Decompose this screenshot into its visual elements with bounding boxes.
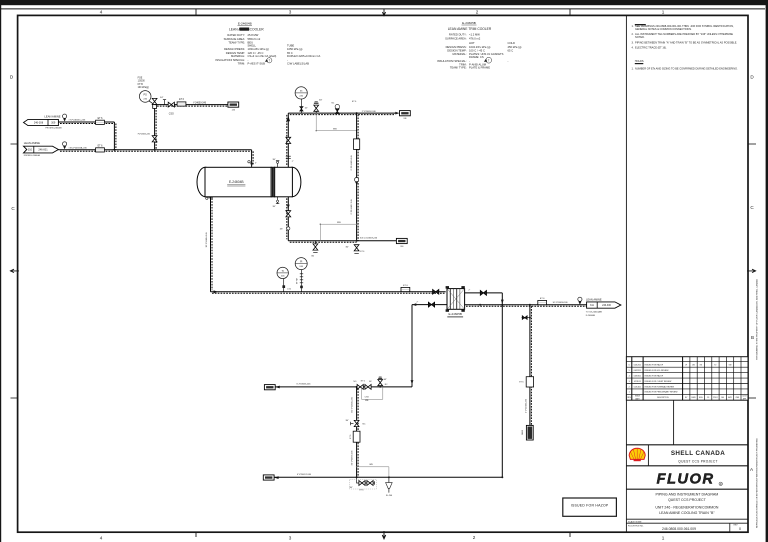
svg-text:DESIGN TEMP:: DESIGN TEMP: (226, 51, 245, 55)
svg-text:65 C: 65 C (508, 48, 514, 52)
valve on cold line (428, 302, 434, 307)
vessel inlet drop line (248, 150, 257, 167)
equipment block E-24604B title (229, 22, 264, 32)
note 2 (632, 32, 734, 39)
svg-text:ET 6: ET 6 (350, 435, 352, 439)
svg-text:R: R (720, 483, 722, 486)
SHELL CANADA wordmark (671, 450, 725, 463)
line 2 (inlet 2 to vessel drop) (58, 150, 251, 152)
svg-text:NT B: NT B (138, 84, 144, 86)
svg-text:LEAN AMINE: LEAN AMINE (24, 141, 40, 145)
zone number 3 top (289, 10, 292, 15)
zone number 4 bottom (100, 536, 103, 541)
valve on vent stub (314, 105, 319, 111)
svg-text:3/4": 3/4" (280, 229, 284, 231)
svg-text:KT: KT (714, 364, 716, 366)
svg-text:ISSUED FOR CLIENT REVIEW: ISSUED FOR CLIENT REVIEW (645, 381, 672, 383)
svg-text:<1.2 MW: <1.2 MW (469, 32, 480, 36)
svg-text:WB: WB (333, 128, 337, 130)
svg-text:THIS DRAWING IS THE PROPERTY O: THIS DRAWING IS THE PROPERTY OF FLUOR CA… (756, 279, 759, 360)
letdown line tags (351, 155, 353, 215)
svg-text:E-24605B: E-24605B (449, 312, 462, 316)
svg-text:1: 1 (662, 10, 665, 15)
notes heading underline (635, 24, 646, 25)
spec break outlet (578, 297, 582, 304)
CSO WB bypass lower header (362, 387, 383, 402)
zone number 2 top (476, 10, 479, 15)
svg-text:1: 1 (662, 536, 665, 541)
svg-text:1/2": 1/2" (305, 107, 309, 109)
lower header line (275, 384, 412, 388)
spec break on letdown (355, 178, 359, 185)
title block (563, 400, 748, 532)
TP box lower header left (264, 385, 279, 390)
TP box bottom header left (263, 475, 278, 480)
svg-text:2.: 2. (632, 32, 634, 36)
bottom header line (274, 474, 502, 478)
open drain funnel (386, 477, 393, 497)
centre arrow right (747, 269, 756, 272)
valve on bleed drop (152, 136, 157, 142)
LI bubble (295, 258, 307, 292)
svg-text:2": 2" (292, 161, 294, 163)
svg-text:3: 3 (289, 536, 292, 541)
zone tick left between B and A (11, 397, 18, 399)
svg-text:B: B (751, 335, 754, 340)
inlet flag LEAN AMINE 2 (24, 141, 59, 157)
svg-text:3/4": 3/4" (319, 100, 323, 102)
svg-text:LEAN AMINE COOLING TRAIN "B": LEAN AMINE COOLING TRAIN "B" (659, 511, 715, 515)
notes column divider line (625, 15, 627, 532)
svg-text:FLUOR FILE NO.: FLUOR FILE NO. (628, 525, 644, 527)
outer top border line (0, 8, 765, 10)
svg-text:25.8 MW: 25.8 MW (248, 33, 259, 37)
note 3 (632, 41, 738, 45)
svg-text:2: 2 (476, 10, 479, 15)
svg-text:SHELL: SHELL (248, 44, 257, 48)
svg-text:4: 4 (629, 376, 630, 378)
holds heading (635, 59, 644, 64)
svg-text:10"-P24658-246: 10"-P24658-246 (553, 302, 569, 304)
vapor riser from channel (286, 113, 294, 167)
svg-text:E-24604B: E-24604B (229, 180, 244, 184)
svg-text:PIPING AND INSTRUMENT DIAGRA: PIPING AND INSTRUMENT DIAGRAM (655, 493, 718, 497)
svg-text:1.: 1. (632, 67, 634, 71)
svg-text:2: 2 (629, 386, 630, 388)
svg-text:F-P24655-246: F-P24655-246 (138, 134, 150, 136)
WB bypass upper (316, 113, 358, 131)
svg-text:PROJ: PROJ (713, 397, 718, 399)
svg-text:5: 5 (629, 370, 630, 372)
svg-text:DESIGN PRESS:: DESIGN PRESS: (446, 45, 467, 49)
svg-text:03/18/11: 03/18/11 (634, 376, 641, 378)
isolation valve pair lower header (354, 380, 373, 389)
outlet flag LEAN AMINE (586, 297, 621, 317)
ET heater symbol line 2 (96, 145, 105, 152)
WB bypass lower (320, 222, 358, 241)
inline strainer on letdown (354, 139, 360, 150)
svg-text:ET 6: ET 6 (179, 99, 185, 101)
svg-text:SURFACE AREA:: SURFACE AREA: (445, 37, 467, 41)
svg-text:HOLDS: HOLDS (635, 59, 644, 63)
bleed drop line to header (138, 108, 156, 150)
svg-text:INSULATION/ SPECIAL:: INSULATION/ SPECIAL: (215, 58, 245, 62)
svg-text:ET 6: ET 6 (403, 285, 408, 287)
svg-text:246: 246 (232, 110, 235, 112)
zone letter C left (11, 206, 15, 211)
zone number 2 bottom (473, 535, 476, 540)
FLUOR wordmark (657, 472, 723, 488)
riser return line right (501, 305, 503, 479)
exchanger E-24605B label (447, 312, 463, 317)
svg-text:CLNT: CLNT (742, 396, 746, 398)
svg-text:SHELL CANADA: SHELL CANADA (671, 450, 725, 457)
spec break symbol line 2 (63, 142, 88, 150)
zone number 3 bottom (289, 536, 292, 541)
svg-text:MATERIAL:: MATERIAL: (231, 54, 245, 58)
svg-text:LEAN AMINE: LEAN AMINE (44, 115, 60, 119)
svg-text:4: 4 (100, 10, 103, 15)
zone tick top between 2 and 1 (569, 9, 571, 15)
TP box PSV line (228, 102, 239, 112)
channel bottom drain line (280, 197, 290, 241)
vapor header to TP (288, 112, 399, 115)
vapor header tag (352, 101, 377, 113)
piping diagram (24, 78, 621, 497)
svg-text:RATED DUTY:: RATED DUTY: (227, 33, 245, 37)
revision initials row (685, 364, 732, 366)
right edge black strip (766, 0, 768, 542)
svg-text:CSO: CSO (365, 396, 370, 398)
svg-text:ISSUED FOR 60% REVIEW: ISSUED FOR 60% REVIEW (645, 370, 669, 372)
svg-text:REPRODUCTION IN WHOLE OR IN PA: REPRODUCTION IN WHOLE OR IN PART WITHOUT… (756, 438, 759, 528)
svg-text:311: 311 (590, 304, 594, 307)
valve on drain drop (345, 420, 365, 427)
svg-text:UNIT 246 - REGENERATION/COMMON: UNIT 246 - REGENERATION/COMMON (655, 506, 719, 510)
svg-text:TI: TI (282, 270, 284, 273)
svg-text:FROM E-24604A: FROM E-24604A (24, 154, 41, 157)
svg-text:246: 246 (403, 118, 406, 120)
svg-text:JP: JP (685, 364, 687, 366)
exchanger bottom-left cold line (411, 301, 447, 387)
revision table (626, 357, 748, 401)
svg-text:4.: 4. (632, 46, 634, 50)
svg-text:FGE: FGE (138, 78, 143, 80)
svg-text:HOT: HOT (469, 41, 475, 45)
valve on vapor riser (286, 137, 291, 143)
vertical margin fine print lower (756, 438, 759, 528)
svg-text:2"-P24652-246: 2"-P24652-246 (362, 111, 377, 113)
inline component on drain drop (350, 431, 360, 442)
svg-text:NUMBER OF ETs AND SIZING TO BE: NUMBER OF ETs AND SIZING TO BE CONFIRMED… (635, 67, 738, 71)
zone tick right between B and A (748, 397, 756, 399)
letdown line vertical (357, 113, 359, 241)
valve before exchanger (433, 289, 439, 294)
svg-text:DUPLEX 2205+0.00mm CA: DUPLEX 2205+0.00mm CA (287, 54, 320, 58)
svg-text:3: 3 (629, 381, 630, 383)
PG service note text (138, 78, 149, 89)
note 1 (632, 24, 735, 31)
svg-text:3/4": 3/4" (160, 97, 164, 99)
svg-text:LG2: LG2 (287, 288, 291, 290)
line 1 (inlet 1 to drop) (58, 122, 116, 151)
svg-text:4: 4 (100, 536, 103, 541)
svg-text:FRAME: CS: FRAME: CS (469, 55, 484, 59)
svg-text:E-24605B: E-24605B (462, 21, 476, 25)
svg-text:04/22/11: 04/22/11 (634, 370, 641, 372)
ET symbol on PSV line (177, 99, 186, 106)
svg-text:6"-P24656-246: 6"-P24656-246 (297, 384, 312, 386)
svg-text:ISSUED FOR HAZOP: ISSUED FOR HAZOP (645, 364, 664, 367)
svg-text:246: 246 (400, 246, 403, 248)
zone tick bottom between 2 and 1 (569, 532, 571, 537)
svg-text:GENERAL NOTES & COMMON CONNECT: GENERAL NOTES & COMMON CONNECTIONS. (635, 27, 692, 31)
svg-text:120 C / -45 C: 120 C / -45 C (248, 51, 264, 55)
svg-text:#T-P24655C-246: #T-P24655C-246 (69, 120, 86, 122)
svg-text:310: 310 (28, 149, 33, 152)
top black bar (0, 0, 768, 5)
svg-text:ALL INSTRUMENT TAG NUMBERS ARE: ALL INSTRUMENT TAG NUMBERS ARE PREFIXED … (635, 32, 733, 36)
svg-text:ET 6: ET 6 (360, 489, 364, 491)
svg-text:6: 6 (629, 365, 630, 367)
svg-text:246-306: 246-306 (602, 304, 611, 307)
svg-text:SURFACE AREA:: SURFACE AREA: (224, 37, 246, 41)
svg-text:3.: 3. (632, 41, 634, 45)
svg-text:ET 6: ET 6 (361, 380, 365, 382)
svg-text:P-AES IT-SUB: P-AES IT-SUB (248, 62, 266, 66)
svg-text:5654.6 m2: 5654.6 m2 (248, 37, 261, 41)
blowdown branch drop (522, 305, 532, 440)
svg-text:TO XX-24610A/B: TO XX-24610A/B (586, 311, 603, 314)
valve on exchanger outlet loop (480, 291, 486, 296)
equipment block E-24605B title (448, 21, 492, 31)
svg-text:1.: 1. (632, 24, 634, 28)
WB bypass to funnel (356, 464, 389, 477)
vessel shell vent stub (273, 159, 280, 168)
svg-text:TUBE: TUBE (287, 44, 294, 48)
svg-text:3/4"-P24656-246: 3/4"-P24656-246 (351, 450, 353, 466)
LG bubble (277, 267, 291, 292)
svg-text:05/12/11: 05/12/11 (634, 365, 641, 367)
svg-text:PG: PG (143, 94, 147, 97)
CSO label (169, 113, 174, 115)
svg-text:3/4": 3/4" (384, 379, 388, 381)
notes column (632, 24, 739, 71)
PSV discharge line (155, 97, 228, 106)
valve on blowdown stub (522, 316, 527, 320)
svg-text:PIPING BETWEEN TRAIN "A" AND T: PIPING BETWEEN TRAIN "A" AND TRAIN "B" T… (635, 41, 737, 45)
centre arrow top (382, 9, 385, 16)
svg-text:1/2000: 1/2000 (138, 81, 146, 83)
svg-text:ET 6: ET 6 (360, 251, 364, 253)
svg-text:CSO: CSO (169, 113, 174, 115)
ET heater symbol line 1 (96, 118, 105, 125)
equipment data blocks (215, 21, 521, 70)
svg-text:INSULATION/ SPECIAL:: INSULATION/ SPECIAL: (437, 59, 467, 63)
vent stub on vapor header (314, 100, 323, 114)
svg-text:TRIM:: TRIM: (238, 62, 246, 66)
svg-text:WB: WB (337, 222, 341, 224)
svg-text:DESIGN PRESS:: DESIGN PRESS: (224, 47, 245, 51)
svg-text:AMINE: AMINE (240, 27, 248, 31)
svg-text:2": 2" (255, 163, 257, 165)
blowdown line tag (526, 398, 528, 413)
svg-text:ELECTRIC TRACE (ET 16).: ELECTRIC TRACE (ET 16). (635, 46, 667, 50)
note 4 (632, 46, 668, 50)
svg-text:COLD: COLD (508, 41, 516, 45)
svg-text:Y-24650-246: Y-24650-246 (193, 102, 207, 104)
svg-text:CS+3 mm thk CA (shell): CS+3 mm thk CA (shell) (248, 54, 277, 58)
svg-text:3/4": 3/4" (273, 159, 277, 161)
svg-text:TEAM/ TYPE:: TEAM/ TYPE: (228, 40, 245, 44)
zone letter D right (750, 75, 754, 80)
globe fitting on vapor header (332, 102, 340, 113)
svg-text:C/W LABELS/LAB: C/W LABELS/LAB (287, 62, 309, 66)
svg-text:2: 2 (473, 535, 476, 540)
steam trap on blowdown (522, 425, 533, 440)
vessel E-24604B label (227, 180, 245, 186)
svg-text:246.0808.000.061.009: 246.0808.000.061.009 (662, 527, 696, 531)
spec break symbol line 1 (63, 114, 86, 121)
svg-text:3/4"-LO24659-246: 3/4"-LO24659-246 (360, 237, 378, 239)
drawing number (662, 525, 741, 532)
svg-text:-: - (287, 59, 288, 62)
zone tick right between D and C (748, 143, 756, 145)
root valve TI (300, 107, 309, 111)
svg-text:LEAN AMINE: LEAN AMINE (586, 297, 602, 301)
svg-text:3/4": 3/4" (273, 206, 277, 208)
revision rows text (629, 364, 678, 394)
equipment block E-24605B data rows (437, 32, 522, 69)
zone letter D left (10, 75, 14, 80)
svg-text:65 C: 65 C (287, 51, 293, 55)
zone tick top between 4 and 3 (195, 9, 197, 15)
bottom header to exchanger (211, 290, 446, 293)
svg-text:RS: RS (700, 364, 702, 366)
ET symbol bottom header (401, 285, 410, 292)
vessel E-24604B shell (197, 167, 301, 197)
drip valve on drain header (312, 241, 318, 258)
svg-text:SP 747: SP 747 (297, 278, 299, 284)
svg-text:3/4": 3/4" (345, 420, 349, 422)
svg-text:ET 6: ET 6 (98, 145, 104, 147)
outlet header tag (553, 302, 569, 304)
svg-text:246-001: 246-001 (38, 149, 48, 152)
svg-text:100 C / -45 C: 100 C / -45 C (469, 48, 485, 52)
svg-text:24650: 24650 (522, 430, 524, 435)
zone number 1 top (662, 10, 665, 15)
svg-text:E-24604B: E-24604B (238, 22, 252, 26)
shell pecten logo (629, 448, 645, 461)
letdown drain valve below junction (345, 245, 364, 254)
winterize symbol block 1 (265, 58, 272, 63)
TI bubble on vapor header (295, 87, 307, 113)
svg-text:MATERIAL:: MATERIAL: (453, 52, 467, 56)
svg-text:DESCRIPTION: DESCRIPTION (657, 397, 669, 399)
svg-text:DESIGN TEMP:: DESIGN TEMP: (447, 48, 466, 52)
equipment block E-24604B data rows (215, 33, 320, 65)
svg-text:2"-PL24653-246: 2"-PL24653-246 (351, 155, 353, 171)
svg-text:FLUOR: FLUOR (657, 472, 715, 488)
svg-text:ET 6: ET 6 (540, 298, 545, 300)
svg-text:SCALE: NONE: SCALE: NONE (628, 520, 642, 523)
TP box vapor header (400, 111, 411, 121)
svg-text:02/11/11: 02/11/11 (634, 381, 641, 383)
exchanger E-24605B (446, 286, 465, 312)
pressure gauge PG bubble (139, 91, 153, 105)
zone letter B right (751, 335, 754, 340)
title block grid (626, 400, 748, 532)
inline component on blowdown (519, 377, 533, 387)
svg-text:NOTED.: NOTED. (635, 35, 645, 39)
svg-text:CHKD: CHKD (691, 397, 697, 399)
svg-text:TEAM/ TYPE:: TEAM/ TYPE: (450, 66, 467, 70)
zone tick left between D and C (11, 143, 18, 145)
svg-text:10"-P24604-246: 10"-P24604-246 (206, 232, 208, 248)
drain valves below bottom header (350, 477, 377, 491)
valve on channel drain (286, 211, 291, 217)
svg-text:QUEST CCS PROJECT: QUEST CCS PROJECT (678, 459, 717, 463)
svg-text:ISSUED FOR HAZOP: ISSUED FOR HAZOP (571, 504, 609, 508)
gate valve on PSV line (168, 102, 174, 107)
svg-text:1050 kPa (g): 1050 kPa (g) (287, 47, 302, 51)
svg-text:#XX-P24655A-246: #XX-P24655A-246 (69, 146, 88, 149)
svg-text:1034.2/Fv kPa (g): 1034.2/Fv kPa (g) (248, 47, 269, 51)
zone number 1 bottom (662, 536, 665, 541)
svg-text:FROM E-24603B: FROM E-24603B (46, 127, 63, 129)
zone tick bottom between 4 and 3 (195, 532, 197, 537)
inlet flag LEAN AMINE 1 (24, 115, 63, 130)
svg-text:309: 309 (51, 122, 56, 125)
svg-text:PLATE & FRAME: PLATE & FRAME (469, 66, 490, 70)
svg-text:ET 6: ET 6 (98, 118, 104, 120)
svg-text:2"-PL24657-246: 2"-PL24657-246 (351, 199, 353, 215)
vertical margin fine print upper (756, 279, 759, 360)
svg-text:6"-P24657-246: 6"-P24657-246 (297, 474, 312, 476)
svg-text:RATED DUTY:: RATED DUTY: (449, 32, 467, 36)
svg-text:246-308: 246-308 (34, 122, 44, 125)
svg-text:01/14/11: 01/14/11 (634, 386, 641, 388)
svg-text:2"-P24658-246: 2"-P24658-246 (526, 398, 528, 413)
svg-text:TI: TI (300, 90, 303, 93)
scale row (628, 520, 644, 527)
svg-text:1034.2/Fv kPa (g): 1034.2/Fv kPa (g) (469, 45, 490, 49)
svg-text:ISSUED FOR PRELIMINARY REVIEW: ISSUED FOR PRELIMINARY REVIEW (645, 391, 678, 394)
left edge strip (0, 0, 1, 542)
zone letter A right (750, 467, 754, 472)
svg-text:-: - (508, 60, 509, 63)
svg-text:LEAN AMINE TRIM COOLER: LEAN AMINE TRIM COOLER (448, 27, 492, 31)
svg-text:-: - (248, 59, 249, 62)
vent stub lower header (378, 377, 388, 387)
zone number 4 top (100, 10, 103, 15)
TP box drain header (396, 238, 407, 248)
drain drop line (351, 387, 358, 477)
svg-text:0: 0 (739, 527, 741, 531)
revision table grid (626, 357, 748, 401)
drawing description (655, 493, 719, 515)
svg-text:3/4": 3/4" (350, 487, 354, 489)
ET symbol outlet header (538, 298, 547, 305)
exchanger top-right outlet loop (465, 290, 504, 305)
vessel outlet down line (206, 197, 212, 292)
svg-text:3/4"-P24656-246: 3/4"-P24656-246 (351, 396, 353, 412)
svg-text:3/4": 3/4" (345, 246, 349, 248)
svg-text:450 kPa (g): 450 kPa (g) (508, 45, 522, 49)
vessel bottom-left nozzle flange (206, 197, 213, 199)
svg-text:PI: PI (300, 261, 303, 264)
issued for hazop stamp (563, 498, 617, 516)
